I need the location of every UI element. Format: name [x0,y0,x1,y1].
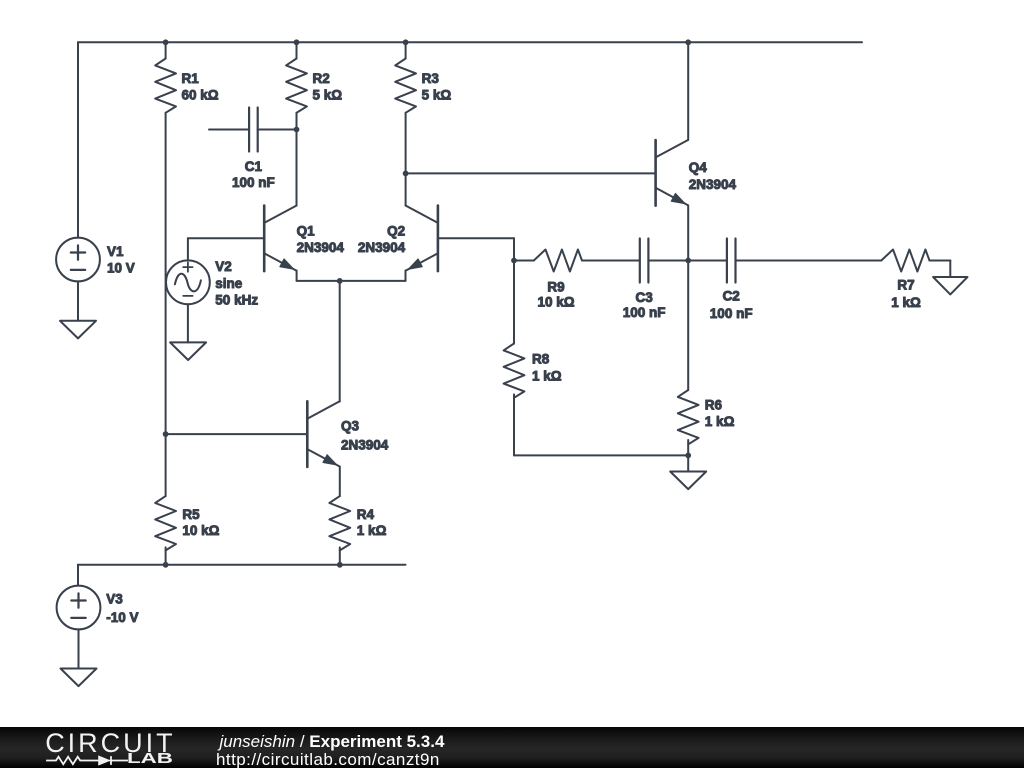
svg-text:Q1: Q1 [297,224,316,239]
wire C2 to R7 [736,260,882,262]
wire V2 up [187,238,189,260]
label R1 [182,71,219,102]
svg-text:V2: V2 [215,259,232,274]
node R1-rail [163,39,169,45]
wire R3 to Q2 collector [405,113,407,206]
resistor R9 [534,250,582,272]
node R5-bottom rail [163,562,169,568]
label R3 [422,71,452,102]
ground (V2) [170,342,206,360]
label Q3 [341,419,389,453]
wire Q3 emitter to R4 [339,467,341,497]
ground (V1) [60,321,96,339]
label R7 [891,278,921,310]
node emitter tail junction [337,278,343,284]
svg-text:5 kΩ: 5 kΩ [422,87,452,102]
svg-text:10 kΩ: 10 kΩ [182,523,219,538]
wire R2 to Q1 collector [296,113,298,206]
svg-text:1 kΩ: 1 kΩ [891,295,921,310]
svg-text:C2: C2 [723,289,740,304]
capacitor C1 [249,108,258,152]
node R3-rail [403,39,409,45]
capacitor C3 [640,239,649,283]
label V1 [107,244,135,275]
wire top supply rail [78,41,862,43]
svg-text:1 kΩ: 1 kΩ [532,369,562,384]
wire R9 left lead [514,260,534,262]
wire bottom rail [78,564,406,566]
node R3-Q4 base junction [403,171,409,177]
label V2 [215,259,258,308]
node R4-bottom rail [337,562,343,568]
wire Q3 base [166,433,308,435]
node Q3 base junction [163,431,169,437]
resistor R7 [881,250,929,272]
node Q2 base-R9-R8 [511,258,517,264]
wire R6 bottom [687,440,689,455]
label V3 [106,591,138,625]
label R6 [705,397,735,429]
label R2 [313,71,343,102]
svg-text:10 V: 10 V [107,261,135,276]
resistor R3 [395,59,416,113]
svg-text:R5: R5 [182,507,200,522]
node C3-C2-Q4-R6 [685,258,691,264]
svg-text:Q3: Q3 [341,419,360,434]
svg-text:5 kΩ: 5 kΩ [313,87,343,102]
node C1-R2 [294,127,300,133]
wire R9 to C3 [582,260,640,262]
svg-text:R3: R3 [422,71,440,86]
wire rail to R1 [165,42,167,58]
transistor Q4 [656,140,688,206]
svg-text:10 kΩ: 10 kΩ [537,295,574,310]
svg-text:sine: sine [215,276,243,291]
label R9 [537,279,574,309]
svg-text:100 nF: 100 nF [710,306,753,321]
transistor Q1 [264,206,296,272]
ground (R7) [933,277,967,294]
wire Q4 emitter down [687,205,689,260]
wire R1 to Q3 base node and R5 [165,113,167,496]
label C2 [710,289,753,321]
svg-text:C3: C3 [635,290,653,305]
label Q1 [297,224,345,255]
capacitor C2 [727,239,736,283]
label Q2 [358,224,406,255]
node R8-R6 ground junction [685,453,691,459]
svg-text:1 kΩ: 1 kΩ [705,414,735,429]
svg-text:R4: R4 [357,507,375,522]
svg-text:-10 V: -10 V [106,610,138,625]
wire C1 left lead [209,129,249,131]
wire V1 to ground [77,281,79,320]
resistor R8 [504,344,525,398]
wire V2 to ground [187,304,189,342]
wire V3 to ground [78,629,80,668]
svg-text:2N3904: 2N3904 [297,240,345,255]
wire to lower ground [687,455,689,471]
svg-text:Q2: Q2 [387,224,405,239]
transistor Q3 [307,401,339,467]
wire R7 to ground [930,261,951,278]
sine source V2 [166,260,210,304]
svg-text:2N3904: 2N3904 [358,240,406,255]
wire Q2 base right [438,238,514,260]
wire R6 top [687,261,689,391]
svg-text:R7: R7 [897,278,914,293]
resistor R5 [155,496,176,550]
wire Q4 collector to rail [687,42,689,140]
svg-text:100 nF: 100 nF [623,305,666,320]
wire rail to R3 [405,42,407,58]
wire Q1 emitter to tail [297,271,340,281]
svg-text:V3: V3 [106,591,123,606]
svg-text:50 kHz: 50 kHz [215,293,258,308]
svg-text:Q4: Q4 [689,160,708,175]
svg-text:2N3904: 2N3904 [689,177,737,192]
label C1 [232,159,275,190]
wire node to C2 [688,260,727,262]
svg-text:60 kΩ: 60 kΩ [182,87,219,102]
svg-text:R2: R2 [313,71,330,86]
wire V2 to Q1 base [188,237,264,239]
ground (V3) [61,669,97,687]
svg-text:R9: R9 [547,279,564,294]
svg-text:V1: V1 [107,244,124,259]
wire V1 to top rail [77,42,79,237]
resistor R4 [329,496,350,550]
label R4 [357,507,387,538]
resistor R2 [286,59,307,113]
label Q4 [689,160,737,192]
wire tail down to Q3 [339,281,341,402]
wire C3 to node [648,260,688,262]
label C3 [623,290,666,320]
ground (R6-R8) [670,472,706,490]
svg-text:R1: R1 [182,71,200,86]
wire to Q4 base [406,172,656,174]
svg-text:C1: C1 [245,159,263,174]
wire R8 bottom [514,394,688,455]
voltage source V1 [56,238,100,282]
label R5 [182,507,219,538]
wire R5 to bottom rail [165,547,167,564]
wire C1 right lead [258,129,297,131]
svg-text:2N3904: 2N3904 [341,438,389,453]
label R8 [532,352,562,384]
node Q4 collector-rail [685,39,691,45]
transistor Q2 [406,206,438,272]
wire V3 stem [77,565,79,586]
svg-text:R6: R6 [705,397,723,412]
wire Q2 emitter to tail [340,271,406,281]
voltage source V3 [57,586,101,630]
resistor R6 [678,390,699,444]
node R2-rail [294,39,300,45]
wire R8 top [513,261,515,344]
resistor R1 [155,59,176,113]
svg-text:1 kΩ: 1 kΩ [357,523,387,538]
wire rail to R2 [296,42,298,58]
svg-text:R8: R8 [532,352,550,367]
svg-text:100 nF: 100 nF [232,175,275,190]
wire R4 to bottom rail [339,547,341,564]
